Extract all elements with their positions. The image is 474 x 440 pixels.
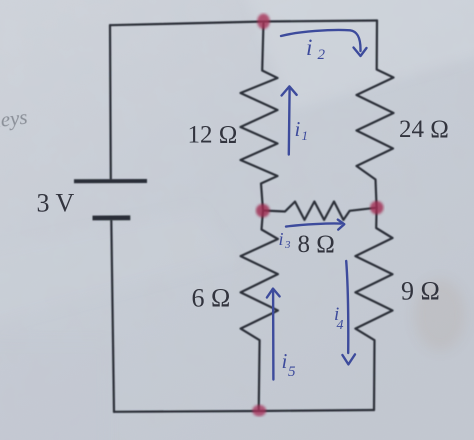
wire top-right segment <box>264 21 377 22</box>
svg-text:4: 4 <box>337 318 344 333</box>
wire top-left segment <box>110 22 264 26</box>
node B (middle-left junction) <box>256 204 270 217</box>
wire left vertical lower <box>111 221 114 412</box>
svg-text:12 Ω: 12 Ω <box>188 122 238 149</box>
resistor 24 ohm <box>357 21 394 208</box>
svg-text:3 V: 3 V <box>37 189 75 218</box>
svg-text:deys: deys <box>0 105 29 133</box>
svg-text:2: 2 <box>318 47 326 63</box>
svg-text:i: i <box>295 117 301 141</box>
wire bottom segment <box>114 410 374 412</box>
current arrow i1 <box>288 89 291 155</box>
node A (top junction) <box>257 14 270 29</box>
svg-text:1: 1 <box>302 128 309 143</box>
svg-text:6 Ω: 6 Ω <box>192 284 231 313</box>
svg-text:i: i <box>279 229 284 249</box>
resistor 8 ohm <box>263 202 377 220</box>
current arrow i3 <box>286 223 341 226</box>
resistor 9 ohm <box>355 208 392 411</box>
svg-text:3: 3 <box>284 239 291 251</box>
current arrow i2 <box>281 30 361 51</box>
svg-text:i: i <box>282 349 288 373</box>
node D (bottom junction) <box>252 405 266 416</box>
resistor 12 ohm <box>241 22 278 211</box>
battery B1 3V plates <box>74 181 147 218</box>
svg-text:8 Ω: 8 Ω <box>298 231 335 258</box>
svg-text:i: i <box>306 35 312 60</box>
resistor 6 ohm <box>241 211 278 412</box>
wire left vertical upper <box>109 25 112 179</box>
svg-text:24 Ω: 24 Ω <box>399 116 449 143</box>
current arrow i4 <box>346 261 348 353</box>
svg-text:9 Ω: 9 Ω <box>401 277 440 306</box>
svg-text:5: 5 <box>288 364 296 380</box>
current arrow i5 <box>272 291 275 380</box>
node C (middle-right junction) <box>370 201 383 214</box>
